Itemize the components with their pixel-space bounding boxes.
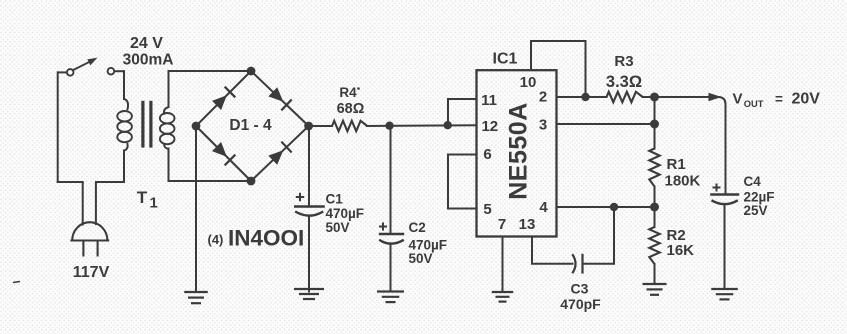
svg-text:20V: 20V [792,91,821,108]
svg-text:2: 2 [539,89,547,106]
svg-text:R4: R4 [339,85,357,100]
svg-text:IN4OOI: IN4OOI [228,226,304,251]
svg-text:C4: C4 [744,174,762,189]
svg-text:IC1: IC1 [493,51,518,68]
svg-text:1: 1 [150,195,158,212]
svg-text:R1: R1 [667,156,686,173]
svg-text:68Ω: 68Ω [337,101,365,117]
svg-text:5: 5 [483,201,491,218]
svg-text:180K: 180K [665,173,701,190]
svg-text:12: 12 [481,118,498,135]
svg-text:10: 10 [520,74,537,91]
svg-text:D1 - 4: D1 - 4 [229,117,272,134]
svg-text:4: 4 [539,199,548,216]
svg-text:NE550A: NE550A [505,102,533,200]
svg-text:7: 7 [498,216,506,233]
svg-text:3: 3 [539,117,547,134]
svg-text:13: 13 [519,216,536,233]
svg-text:C1: C1 [326,192,344,207]
svg-text:24 V: 24 V [130,35,163,52]
svg-text:C3: C3 [571,281,589,297]
svg-text:11: 11 [481,92,497,109]
svg-text:R3: R3 [614,53,633,70]
svg-text:6: 6 [483,146,491,163]
svg-text:470pF: 470pF [560,296,601,312]
svg-text:(4): (4) [208,232,224,247]
svg-text:300mA: 300mA [123,52,174,69]
svg-text:C2: C2 [409,220,426,235]
svg-text:16K: 16K [667,242,695,259]
svg-text:50V: 50V [409,251,433,266]
svg-text:25V: 25V [744,203,768,218]
svg-text:=: = [775,91,783,106]
svg-text:50V: 50V [326,220,350,235]
svg-text:117V: 117V [73,264,110,281]
svg-text:470µF: 470µF [326,206,365,221]
svg-text:V: V [733,91,743,108]
svg-text:OUT: OUT [744,99,764,109]
svg-text:T: T [137,188,148,207]
svg-text:3.3Ω: 3.3Ω [606,73,642,91]
